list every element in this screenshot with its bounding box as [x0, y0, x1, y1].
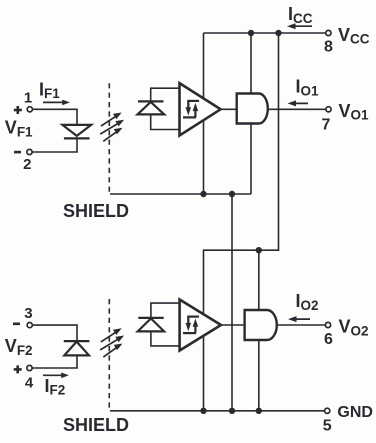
- hysteresis symbol U1: [183, 101, 199, 118]
- minus sign channel1: [14, 151, 21, 154]
- svg-text:5: 5: [323, 418, 332, 435]
- photodiode PD2: [138, 318, 164, 332]
- op-amp U1 triangle: [180, 83, 221, 135]
- svg-text:7: 7: [322, 117, 331, 134]
- wire center ground drop: [231, 194, 233, 411]
- pin 3 terminal: [27, 323, 32, 328]
- svg-text:3: 3: [24, 305, 32, 322]
- wire output2: [277, 324, 326, 326]
- node feed-gate2: [256, 247, 262, 253]
- LED D2: [64, 341, 90, 355]
- pin 5 terminal: [325, 408, 330, 413]
- wire pin3 lead: [32, 325, 77, 341]
- op-amp U2 triangle: [180, 300, 221, 351]
- wire channel2 supply drop: [204, 33, 279, 411]
- wire gate2 bottom to ground: [258, 340, 260, 411]
- AND gate G2: [245, 310, 277, 340]
- plus sign channel2: [14, 365, 22, 373]
- pin 8 terminal: [326, 30, 331, 35]
- svg-text:IF2: IF2: [45, 376, 66, 398]
- svg-text:VCC: VCC: [338, 25, 370, 47]
- svg-text:GND: GND: [337, 404, 373, 421]
- pin 4 terminal: [27, 365, 32, 370]
- wire amp2 to gate2: [221, 324, 245, 326]
- current arrow ICC: [287, 23, 312, 29]
- svg-text:VF1: VF1: [5, 118, 33, 140]
- svg-text:VO1: VO1: [339, 101, 370, 123]
- svg-text:IF1: IF1: [39, 80, 60, 102]
- wire gate1 bottom to shield line: [250, 124, 252, 195]
- svg-text:VO2: VO2: [339, 317, 369, 339]
- svg-text:SHIELD: SHIELD: [63, 415, 129, 435]
- pin 6 terminal: [325, 322, 330, 327]
- svg-text:IO1: IO1: [296, 77, 320, 99]
- current arrow IF1: [43, 100, 70, 106]
- node rail-gate1: [248, 30, 254, 36]
- pin terminals: [27, 30, 331, 413]
- svg-text:ICC: ICC: [288, 4, 313, 26]
- wire GND rail: [110, 410, 325, 412]
- svg-text:1: 1: [24, 90, 32, 107]
- wire VCC rail: [204, 32, 326, 34]
- shield2 dashed line: [108, 299, 110, 410]
- node rail-ch2: [275, 30, 281, 36]
- AND gate G1: [237, 94, 268, 124]
- wire photodiode2 box: [151, 303, 180, 346]
- wire vcc-left-drop behind amp U1: [203, 33, 205, 194]
- wire amp1 to gate1: [221, 108, 237, 110]
- node gnd-mid: [229, 408, 235, 414]
- wire pin4 lead: [32, 355, 77, 368]
- wire pin2 lead: [32, 138, 77, 152]
- svg-text:SHIELD: SHIELD: [63, 201, 129, 221]
- wire output1: [268, 108, 326, 110]
- svg-text:4: 4: [25, 374, 34, 391]
- wire pin1 lead: [32, 109, 77, 125]
- plus sign channel1: [14, 106, 22, 114]
- junction dots: [200, 30, 281, 414]
- light arrows channel2: [100, 328, 124, 357]
- svg-text:VF2: VF2: [5, 336, 33, 358]
- svg-text:IO2: IO2: [296, 291, 319, 313]
- LED D1: [63, 125, 92, 138]
- svg-text:2: 2: [23, 156, 31, 173]
- pin 7 terminal: [326, 107, 331, 112]
- light arrows channel1: [100, 113, 124, 142]
- wire gate1 top supply: [250, 33, 252, 94]
- svg-text:8: 8: [324, 39, 333, 56]
- wire gate2 supply: [258, 250, 260, 310]
- node gnd-right: [256, 408, 262, 414]
- wire shield1 return: [110, 193, 251, 195]
- photodiode PD1: [138, 101, 165, 114]
- minus sign channel2: [13, 322, 20, 325]
- current arrow IO1: [288, 100, 309, 106]
- current arrow IO2: [288, 316, 310, 322]
- hysteresis symbol U2: [183, 317, 199, 334]
- pin 1 terminal: [27, 107, 32, 112]
- node gnd-left: [200, 408, 206, 414]
- wire photodiode1 box: [151, 88, 180, 129]
- node shield1-left: [200, 191, 206, 197]
- svg-text:6: 6: [324, 331, 333, 348]
- pin 2 terminal: [27, 149, 32, 154]
- shield1 dashed line: [108, 83, 110, 193]
- current arrow IF2: [43, 373, 69, 379]
- node shield1-mid: [229, 191, 235, 197]
